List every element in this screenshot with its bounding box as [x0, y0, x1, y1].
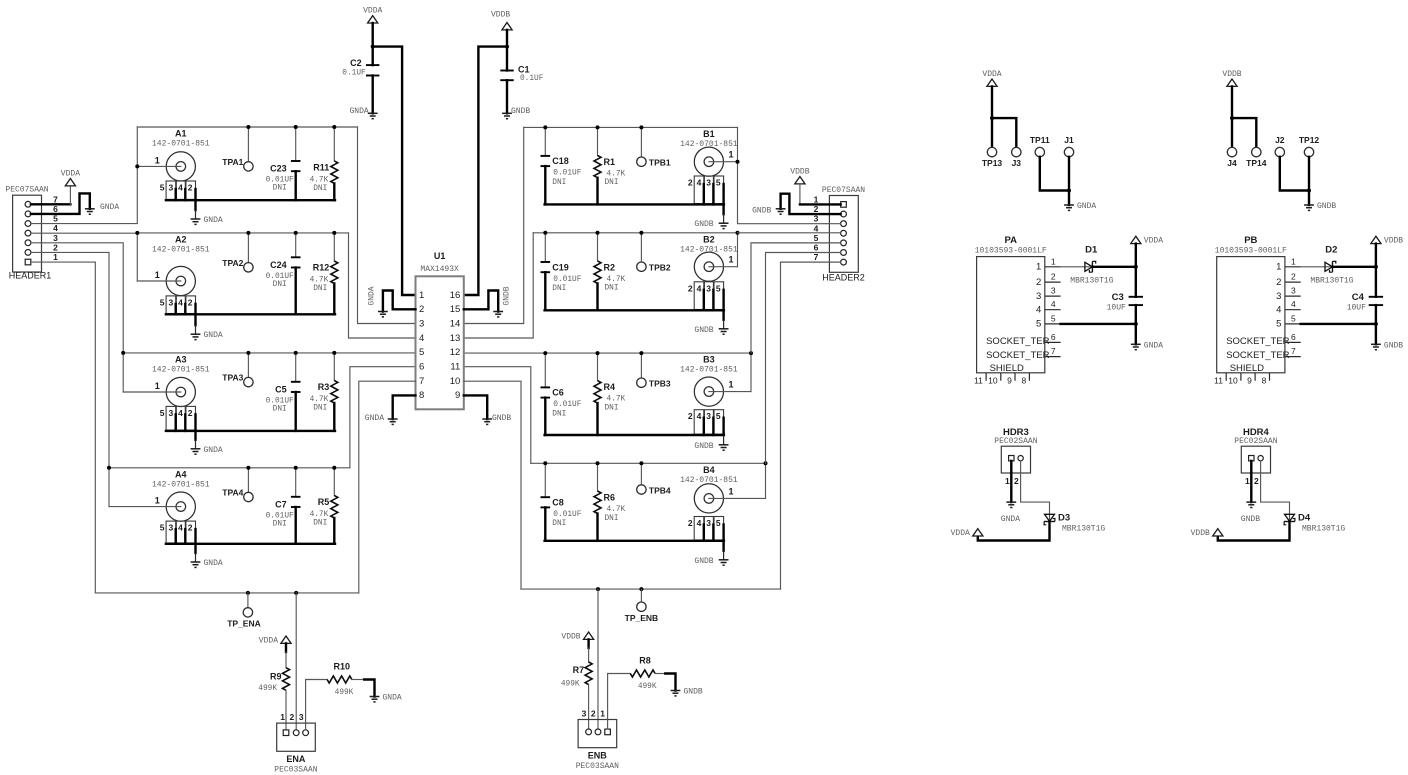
wire A4 ground rail: [166, 543, 335, 545]
svg-text:9: 9: [1247, 375, 1252, 385]
wire A2 ground rail: [166, 313, 335, 315]
svg-text:0.01UF: 0.01UF: [266, 512, 294, 520]
svg-text:TPA3: TPA3: [222, 373, 243, 383]
svg-text:ENB: ENB: [588, 750, 608, 760]
svg-text:11: 11: [1214, 375, 1223, 385]
svg-text:4: 4: [1051, 299, 1056, 309]
svg-text:4: 4: [178, 183, 183, 193]
label GNDA at U1 pin2: [368, 286, 377, 305]
junction ENA pin2 on rail: [294, 591, 298, 595]
junction C23 on rail: [294, 125, 298, 129]
svg-text:10UF: 10UF: [1347, 304, 1366, 313]
ground GNDB of B3: [694, 435, 728, 451]
wire B2 shield pin: [722, 290, 724, 311]
svg-text:7: 7: [814, 252, 819, 262]
svg-text:5: 5: [716, 411, 721, 421]
wire A2 pin 1: [137, 280, 181, 282]
svg-text:TP12: TP12: [1299, 135, 1320, 145]
svg-text:10UF: 10UF: [1107, 304, 1126, 313]
svg-text:DNI: DNI: [273, 405, 287, 413]
wire ENA pin3 to R10: [306, 680, 328, 730]
svg-text:1: 1: [600, 708, 605, 718]
svg-text:D3: D3: [1058, 513, 1070, 524]
resistor R4: [594, 381, 626, 413]
svg-text:VDDA: VDDA: [363, 7, 382, 16]
power symbol VDDB at R7: [561, 632, 593, 642]
svg-text:VDDA: VDDA: [982, 70, 1001, 79]
svg-text:1: 1: [1005, 476, 1010, 486]
junction R6 on rail: [596, 461, 600, 465]
svg-text:GNDA: GNDA: [100, 203, 119, 212]
wire B3 net rail: [464, 352, 751, 354]
svg-text:1: 1: [155, 155, 160, 165]
svg-text:PEC07SAAN: PEC07SAAN: [822, 186, 865, 195]
ground GNDA at PA: [1131, 341, 1163, 350]
svg-text:1: 1: [728, 255, 733, 265]
coax connector B4: [680, 465, 738, 513]
svg-text:0.01UF: 0.01UF: [553, 401, 581, 409]
wire R4 top lead: [597, 353, 599, 381]
label GNDB below C1: [511, 107, 530, 116]
svg-text:5: 5: [160, 183, 165, 193]
svg-text:R11: R11: [313, 162, 329, 172]
svg-text:5: 5: [1051, 313, 1056, 323]
wire R11 bottom lead: [333, 183, 335, 200]
svg-text:3: 3: [169, 183, 174, 193]
junction D1/C3: [1134, 265, 1138, 269]
wire to GNDA right1: [1068, 191, 1070, 206]
label GNDB at U1 pin9: [492, 414, 511, 423]
svg-text:1: 1: [1276, 262, 1281, 273]
power symbol VDDB (top right): [491, 10, 512, 30]
svg-text:3: 3: [706, 518, 711, 528]
wire pin5 net to ground: [1135, 324, 1137, 344]
ground GNDB at U1 pin15: [493, 312, 503, 317]
wire HEADER1 pin5 to A1: [31, 166, 137, 223]
svg-text:MBR130T1G: MBR130T1G: [1310, 276, 1353, 285]
junction VDDA split: [990, 116, 994, 120]
wire C8 top lead: [544, 463, 546, 497]
svg-text:DNI: DNI: [273, 185, 287, 193]
svg-text:3: 3: [169, 297, 174, 307]
svg-text:VDDB: VDDB: [491, 10, 510, 19]
svg-text:2: 2: [53, 242, 58, 252]
wire B4 shield pin: [722, 525, 724, 541]
svg-text:1: 1: [1051, 256, 1056, 266]
junction C4/pin5: [1374, 322, 1378, 326]
socket PB 10103593-0001LF: [1214, 235, 1301, 385]
svg-text:C7: C7: [275, 499, 287, 509]
wire B3 shield pin: [722, 418, 724, 435]
power symbol VDDA (top left): [363, 7, 382, 23]
wire HEADER2 pin5 to B3: [751, 243, 841, 353]
wire B4 to ground: [722, 541, 724, 551]
ground GNDA of A3: [191, 440, 223, 455]
wire R5 top lead: [333, 468, 335, 496]
svg-text:J4: J4: [1227, 158, 1237, 168]
ground GNDA of A1: [191, 210, 223, 225]
svg-text:4: 4: [178, 297, 183, 307]
wire TPA3: [247, 353, 249, 378]
svg-text:5: 5: [716, 283, 721, 293]
ground GNDA at HEADER1: [85, 209, 95, 214]
power symbol VDDA at R9: [259, 636, 291, 646]
svg-text:4: 4: [697, 283, 702, 293]
svg-text:1: 1: [1291, 256, 1296, 266]
resistor R11: [310, 161, 338, 193]
svg-text:1: 1: [728, 150, 733, 160]
ground GNDB at U1 pin9: [482, 419, 492, 424]
svg-text:PEC02SAAN: PEC02SAAN: [1234, 437, 1277, 446]
svg-text:3: 3: [53, 233, 58, 243]
wire HDR3 pin1 to ground: [1010, 461, 1012, 502]
pin number 1 of A1: [155, 155, 160, 165]
wire TPA2: [247, 233, 249, 263]
wire VDD down to C4: [1375, 244, 1377, 297]
wire U1 pin10 to ENB rail: [464, 381, 521, 589]
pin number 6 of HEADER2: [814, 243, 819, 253]
svg-text:2: 2: [1254, 476, 1259, 486]
wire R2 bottom lead: [596, 283, 598, 310]
svg-text:D2: D2: [1325, 245, 1337, 256]
svg-text:GNDB: GNDB: [752, 207, 771, 216]
svg-text:5: 5: [716, 178, 721, 188]
pin number 1 of HEADER2: [814, 194, 819, 204]
svg-text:C6: C6: [552, 388, 564, 398]
pin number 1 of A2: [155, 270, 160, 280]
power symbol VDDA at HDR3: [951, 529, 983, 539]
svg-text:142-0701-851: 142-0701-851: [152, 245, 210, 254]
wire U1 pin9 to GNDB: [464, 395, 487, 419]
wire R3 top lead: [333, 353, 335, 381]
svg-text:TPB3: TPB3: [649, 379, 671, 389]
power symbol VDDA at PA: [1131, 236, 1164, 246]
svg-text:4: 4: [178, 523, 183, 533]
connector HEADER2: [822, 186, 865, 283]
resistor R9: [258, 668, 289, 693]
junction B3 rail/header pin5: [749, 351, 753, 355]
svg-text:GNDA: GNDA: [204, 216, 223, 225]
svg-text:3: 3: [1051, 286, 1056, 296]
connector ENB: [576, 708, 619, 771]
svg-text:2: 2: [1036, 277, 1041, 288]
junction TPB3 on rail: [639, 351, 643, 355]
svg-text:B4: B4: [703, 465, 715, 475]
wire A3 pin 1: [123, 391, 181, 393]
svg-text:GNDB: GNDB: [694, 326, 713, 335]
wire PB pin5 net: [1301, 323, 1376, 325]
svg-text:3: 3: [706, 178, 711, 188]
svg-text:10: 10: [1228, 375, 1238, 385]
pin block of B1 (pins 5 3 4 2): [688, 176, 724, 204]
svg-text:4.7K: 4.7K: [310, 176, 329, 184]
svg-text:0.01UF: 0.01UF: [553, 276, 581, 284]
svg-text:GNDA: GNDA: [349, 107, 368, 116]
wire A3 left drop: [122, 353, 124, 392]
wire A3 shield pin: [194, 414, 196, 431]
wire A1 pin 1: [137, 165, 181, 167]
svg-text:VDDA: VDDA: [1144, 237, 1163, 246]
wire VDDA to junction: [372, 23, 374, 47]
svg-text:DNI: DNI: [552, 520, 566, 528]
power symbol VDDB at PB: [1371, 236, 1404, 246]
capacitor C7: [266, 497, 301, 529]
wire C19 bottom lead: [544, 272, 546, 310]
wire to GNDB right1: [1308, 191, 1310, 206]
resistor R7: [561, 662, 592, 689]
wire PB pin1 to D2: [1301, 266, 1333, 268]
wire A1 to ground: [194, 200, 196, 210]
svg-text:VDDB: VDDB: [561, 633, 580, 642]
wire VDDA down: [991, 86, 993, 118]
junction TPA1 on rail: [246, 125, 250, 129]
junction C6 on rail: [543, 351, 547, 355]
svg-text:5: 5: [1276, 319, 1281, 330]
junction J1/TP11: [1067, 189, 1071, 193]
wire C5 top lead: [295, 353, 297, 382]
pin number 1 of A4: [155, 496, 160, 506]
svg-text:GNDB: GNDB: [1241, 515, 1260, 524]
wire TPB4: [640, 463, 642, 485]
wire B4 shield pin: [712, 525, 714, 541]
capacitor C19: [541, 262, 582, 293]
wire R6 top lead: [597, 463, 599, 491]
wire R9 to ENA pin1: [285, 690, 287, 730]
wire A4 to ground: [194, 544, 196, 553]
pin number 6 of HEADER1: [53, 204, 58, 214]
svg-text:SOCKET_TER: SOCKET_TER: [986, 350, 1049, 361]
coax connector A4: [152, 469, 210, 521]
svg-text:B1: B1: [703, 129, 715, 139]
wire C3 to pin5 net: [1135, 305, 1137, 324]
wire A3 to ground: [194, 431, 196, 440]
svg-text:GNDB: GNDB: [684, 688, 703, 697]
svg-text:3: 3: [706, 411, 711, 421]
wire C2 bottom lead: [372, 76, 374, 114]
svg-text:4: 4: [697, 518, 702, 528]
svg-text:TP14: TP14: [1246, 158, 1267, 168]
junction TPB2 on rail: [639, 231, 643, 235]
svg-text:MBR130T1G: MBR130T1G: [1062, 524, 1105, 533]
junction R1 on rail: [596, 125, 600, 129]
wire TP11 to GNDA: [1040, 157, 1069, 191]
wire R7 to ENB pin3: [588, 685, 590, 729]
svg-text:3: 3: [1276, 291, 1281, 302]
wire A3 net rail: [123, 352, 415, 354]
wire TPA4: [247, 468, 249, 493]
svg-text:4: 4: [1036, 305, 1041, 316]
resistor R3: [310, 381, 338, 413]
wire B2 shield pin: [712, 290, 714, 311]
label GNDB at HDR4: [1241, 515, 1260, 524]
testpoint TPB3: [637, 378, 671, 389]
testpoint J3: [1012, 147, 1022, 168]
coax connector A2: [152, 234, 210, 295]
pin number 4 of HEADER2: [814, 223, 819, 233]
wire HDR4 pin1 to ground: [1250, 461, 1252, 502]
svg-text:A1: A1: [175, 129, 187, 139]
svg-text:5: 5: [1291, 313, 1296, 323]
wire B3 shield pin: [703, 418, 705, 435]
svg-text:3: 3: [299, 712, 304, 722]
svg-text:142-0701-851: 142-0701-851: [152, 365, 210, 374]
svg-text:DNI: DNI: [273, 520, 287, 528]
pin block of B3 (pins 5 3 4 2): [688, 410, 724, 435]
svg-text:142-0701-851: 142-0701-851: [680, 366, 738, 375]
testpoint TP_ENA: [227, 608, 261, 629]
wire VDDA to R9 thin: [285, 652, 287, 668]
svg-text:TPB4: TPB4: [649, 486, 671, 496]
wire B2 pin 1: [709, 266, 738, 268]
svg-text:C8: C8: [552, 498, 564, 508]
pin number 7 of HEADER1: [53, 194, 58, 204]
wire HDR4 pin2 to D4: [1261, 461, 1290, 522]
ground GNDB of B2: [694, 320, 728, 335]
svg-text:4: 4: [1291, 299, 1296, 309]
wire TP12 down: [1308, 157, 1310, 191]
wire A4 shield pin: [174, 529, 176, 544]
wire B4 pin 1: [709, 497, 766, 499]
wire C18 top lead: [544, 127, 546, 155]
wire C1 top lead: [506, 47, 508, 71]
wire HEADER2 pin3 stub: [826, 223, 841, 225]
resistor R1: [594, 155, 626, 187]
svg-text:3: 3: [169, 408, 174, 418]
testpoint TP11: [1030, 135, 1050, 157]
svg-text:15: 15: [450, 304, 461, 315]
svg-text:C2: C2: [350, 58, 362, 68]
junction B4 rail/header pin6: [764, 461, 768, 465]
svg-text:3: 3: [169, 523, 174, 533]
svg-text:4.7K: 4.7K: [310, 511, 329, 519]
svg-text:VDDB: VDDB: [1191, 529, 1210, 538]
wire HEADER1 pin1 to EN rail: [31, 262, 95, 593]
svg-text:2: 2: [1291, 272, 1296, 282]
svg-text:J2: J2: [1275, 135, 1285, 145]
junction R4 on rail: [596, 351, 600, 355]
svg-text:6: 6: [1291, 332, 1296, 342]
wire D4 to VDD: [1218, 522, 1290, 541]
svg-text:6: 6: [419, 362, 424, 373]
wire VDDB down: [1231, 86, 1233, 118]
power symbol VDDA at HEADER1: [61, 170, 80, 186]
svg-text:499K: 499K: [258, 685, 277, 693]
svg-text:B2: B2: [703, 234, 715, 244]
svg-text:DNI: DNI: [313, 285, 327, 293]
wire R5 bottom lead: [333, 518, 335, 544]
wire A3 ground rail: [166, 430, 335, 432]
connector HEADER1: [5, 186, 51, 281]
wire J1 down: [1068, 157, 1070, 191]
wire D2 to VDD: [1333, 266, 1376, 268]
wire B3 pin 1: [709, 391, 751, 393]
svg-text:SOCKET_TER: SOCKET_TER: [1226, 350, 1289, 361]
svg-text:499K: 499K: [638, 683, 657, 691]
wire B2 net rail: [533, 232, 737, 234]
wire B1 ground rail: [545, 203, 724, 205]
svg-text:1: 1: [1245, 476, 1250, 486]
svg-text:2: 2: [290, 712, 295, 722]
svg-text:1: 1: [53, 252, 58, 262]
junction C19 on rail: [543, 231, 547, 235]
wire B1 pin 1: [709, 161, 738, 163]
testpoint TPB4: [637, 485, 671, 496]
wire U1 pin2 to GNDA: [383, 291, 416, 312]
capacitor C2: [342, 58, 379, 78]
pin number 3 of HEADER2: [814, 214, 819, 224]
wire C4 to pin5 net: [1375, 305, 1377, 324]
junction C8 on rail: [543, 461, 547, 465]
svg-text:DNI: DNI: [605, 404, 619, 412]
svg-text:8: 8: [1262, 375, 1267, 385]
capacitor C24: [266, 257, 301, 289]
wire B1 shield pin: [703, 184, 705, 204]
wire B4 right drop: [765, 463, 767, 498]
svg-text:3: 3: [582, 708, 587, 718]
junction TPB4 on rail: [639, 461, 643, 465]
wire R12 bottom lead: [333, 284, 335, 315]
label GNDB at HEADER2: [752, 207, 771, 216]
svg-text:2: 2: [1276, 277, 1281, 288]
wire VDDA to U1 pin 1: [373, 47, 416, 295]
wire B3 ground rail: [545, 434, 724, 436]
pin number 1 of B3: [728, 380, 733, 390]
svg-text:12: 12: [450, 347, 461, 358]
wire A4 net rail: [109, 467, 350, 469]
wire B4 net rail: [531, 462, 766, 464]
pin number 1 of A3: [155, 381, 160, 391]
svg-text:R6: R6: [604, 493, 616, 503]
wire A1 net rail: [137, 126, 357, 128]
svg-text:0.01UF: 0.01UF: [266, 177, 294, 185]
junction ENB pin2 on rail: [596, 587, 600, 591]
junction VDDB split: [1230, 116, 1234, 120]
wire TPA1: [247, 127, 249, 162]
svg-text:4: 4: [419, 333, 424, 344]
wire R11 top lead: [333, 127, 335, 161]
junction TP_ENB on rail: [639, 587, 643, 591]
svg-text:2: 2: [188, 523, 193, 533]
capacitor C23: [266, 161, 301, 193]
label GNDA at HDR3: [1001, 515, 1020, 524]
svg-text:0.1UF: 0.1UF: [520, 75, 544, 83]
wire A2 rail to U1 pin4: [349, 233, 416, 338]
svg-text:GNDA: GNDA: [204, 559, 223, 568]
capacitor C18: [541, 156, 582, 187]
junction A1 pin1/header: [135, 164, 139, 168]
svg-text:10103593-0001LF: 10103593-0001LF: [1215, 247, 1287, 256]
wire HEADER1 pin3 to A3 rail: [31, 243, 123, 353]
svg-text:TP_ENA: TP_ENA: [227, 619, 261, 629]
wire R6 bottom lead: [596, 514, 598, 541]
svg-text:D4: D4: [1298, 513, 1311, 524]
svg-text:PA: PA: [1004, 235, 1017, 246]
svg-text:DNI: DNI: [605, 285, 619, 293]
testpoint TPA4: [222, 488, 253, 502]
pin block of A4 (pins 5 3 4 2): [160, 521, 196, 543]
svg-text:U1: U1: [434, 251, 446, 261]
svg-text:2: 2: [688, 411, 693, 421]
wire HEADER1 pin2 to A4 rail: [31, 252, 109, 467]
wire B4 rail to U1 pin11: [464, 367, 531, 464]
wire A4 pin 1: [109, 506, 181, 508]
svg-text:GNDA: GNDA: [1001, 515, 1020, 524]
svg-text:A2: A2: [175, 234, 187, 244]
svg-text:7: 7: [53, 194, 58, 204]
svg-text:A4: A4: [175, 469, 187, 479]
svg-text:GNDB: GNDB: [694, 442, 713, 451]
svg-text:MBR130T1G: MBR130T1G: [1070, 276, 1113, 285]
